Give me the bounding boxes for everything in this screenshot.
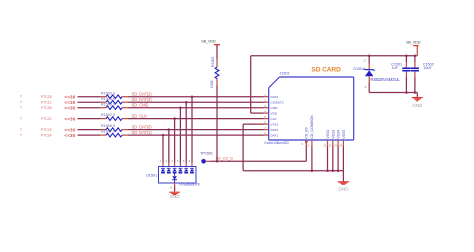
svg-text:14: 14	[339, 143, 343, 147]
svg-text:T: T	[20, 134, 22, 138]
svg-text:CD_COMMON: CD_COMMON	[310, 115, 314, 139]
svg-text:PTC21: PTC21	[41, 117, 52, 121]
svg-text:T: T	[20, 117, 22, 121]
svg-text:VSS4: VSS4	[337, 130, 341, 139]
svg-text:DAT2: DAT2	[271, 95, 279, 99]
svg-text:PTC26: PTC26	[41, 106, 52, 110]
svg-text:GND: GND	[412, 103, 423, 108]
svg-text:SD_DAT(2): SD_DAT(2)	[132, 92, 153, 97]
svg-text:VSS1: VSS1	[271, 122, 279, 126]
svg-text:DAT1: DAT1	[271, 133, 279, 137]
svg-text:13: 13	[334, 143, 338, 147]
svg-text:<<30: <<30	[64, 105, 75, 110]
svg-text:R1502 0: R1502 0	[101, 113, 115, 117]
svg-text:T: T	[20, 95, 22, 99]
svg-text:R1506 0: R1506 0	[101, 124, 115, 128]
svg-text:10uF: 10uF	[423, 66, 432, 70]
svg-text:DAT0: DAT0	[271, 128, 279, 132]
svg-text:GND: GND	[170, 194, 181, 199]
svg-text:10: 10	[306, 144, 310, 148]
svg-text:CD/DAT3: CD/DAT3	[271, 101, 284, 105]
svg-text:D1501: D1501	[353, 67, 364, 71]
svg-text:1uF: 1uF	[392, 66, 399, 70]
svg-text:SD_CMD: SD_CMD	[132, 103, 149, 108]
svg-text:<<30: <<30	[64, 100, 75, 105]
svg-text:SD_DAT(1): SD_DAT(1)	[132, 130, 153, 135]
svg-text:A: A	[364, 85, 366, 89]
svg-text:T: T	[20, 128, 22, 132]
svg-text:T: T	[20, 106, 22, 110]
svg-text:<<30: <<30	[64, 94, 75, 99]
svg-text:PTC25: PTC25	[41, 95, 52, 99]
svg-text:Conn-MicroSD: Conn-MicroSD	[264, 140, 289, 145]
svg-text:R1505 0: R1505 0	[101, 102, 115, 106]
svg-text:CD_B0: CD_B0	[305, 127, 309, 138]
svg-text:SD_DAT(3): SD_DAT(3)	[132, 97, 153, 102]
svg-text:CLK: CLK	[271, 117, 278, 121]
svg-text:<<30: <<30	[64, 133, 75, 138]
svg-text:U1501: U1501	[146, 173, 157, 177]
svg-text:VDD: VDD	[271, 111, 278, 115]
svg-text:VSS2: VSS2	[326, 130, 330, 139]
svg-text:R1509: R1509	[211, 57, 215, 67]
svg-text:TP1501: TP1501	[200, 151, 213, 155]
svg-text:CMD: CMD	[271, 106, 279, 110]
svg-text:J1501: J1501	[279, 72, 289, 76]
svg-text:SD_CD_B: SD_CD_B	[216, 155, 234, 160]
svg-text:GND: GND	[338, 187, 349, 192]
svg-text:VSS3: VSS3	[331, 130, 335, 139]
svg-text:VSS5: VSS5	[342, 130, 346, 139]
svg-text:R1503 0: R1503 0	[101, 91, 115, 95]
svg-text:PTC23: PTC23	[41, 128, 52, 132]
svg-text:SD CARD: SD CARD	[311, 67, 341, 74]
svg-text:PTC24: PTC24	[41, 134, 52, 138]
svg-text:R1504 0: R1504 0	[101, 97, 115, 101]
svg-text:T: T	[20, 101, 22, 105]
svg-text:PUSB6B6DP6: PUSB6B6DP6	[179, 183, 200, 187]
svg-text:11: 11	[323, 143, 326, 147]
svg-text:SD_CLK: SD_CLK	[132, 113, 148, 118]
svg-text:RSB20VSM2UL: RSB20VSM2UL	[370, 77, 400, 82]
svg-text:<<30: <<30	[64, 127, 75, 132]
svg-text:PTC11: PTC11	[41, 101, 51, 105]
svg-text:SD_DAT(0): SD_DAT(0)	[132, 124, 153, 129]
svg-text:R1507 0: R1507 0	[101, 130, 115, 134]
svg-text:<<30: <<30	[64, 116, 75, 121]
svg-text:SB_VDD: SB_VDD	[201, 40, 216, 44]
svg-text:SB_VDD: SB_VDD	[406, 40, 421, 44]
svg-text:12: 12	[328, 143, 332, 147]
svg-text:100K: 100K	[210, 79, 214, 88]
